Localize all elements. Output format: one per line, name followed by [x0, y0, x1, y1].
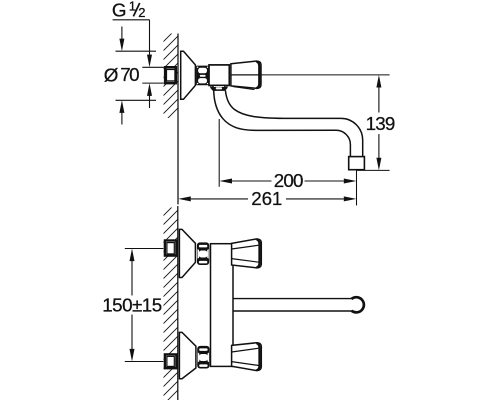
- escutcheon cone (top view): [181, 51, 196, 99]
- extension line escutcheon top: [116, 50, 157, 52]
- leader drop line of G1/2: [149, 20, 151, 56]
- extension line from handle axis: [261, 74, 389, 76]
- arrowhead Ø70 upper: [119, 39, 124, 52]
- spout tube (front view): [233, 299, 352, 311]
- svg-text:70: 70: [120, 64, 139, 85]
- extension line from aerator base: [357, 169, 390, 171]
- svg-text:261: 261: [251, 188, 282, 209]
- dimension line 139 upper segment: [378, 88, 380, 113]
- upper handle knob (front view): [232, 239, 262, 268]
- spout tube upper edge (top view): [225, 90, 362, 156]
- arrowhead 200 left: [219, 179, 232, 184]
- extension line spout axis: [218, 119, 220, 187]
- lower wall union nut (front view): [165, 354, 177, 368]
- lower handle knob (front view): [232, 343, 262, 371]
- wall hatching (top view): [148, 3, 193, 138]
- label Ø70: [104, 64, 140, 85]
- dimension line 139 lower segment: [378, 134, 380, 158]
- extension line upper inlet axis: [125, 248, 164, 250]
- dimension line 150 upper segment: [131, 261, 133, 296]
- dimension line 200 right segment: [305, 180, 344, 182]
- extension line lower inlet axis: [125, 361, 164, 363]
- svg-text:150±15: 150±15: [102, 295, 162, 316]
- arrowhead 150 bottom: [130, 349, 135, 362]
- arrowhead G1/2 lower: [147, 83, 152, 96]
- label G1/2: [112, 0, 146, 20]
- fraction slash of G1/2: [133, 3, 139, 16]
- arrowhead 200 right: [344, 179, 357, 184]
- upper escutcheon cone (front view): [179, 229, 195, 277]
- extension line escutcheon bottom: [116, 99, 157, 101]
- dimension line 150 lower segment: [131, 315, 133, 350]
- arrow tail G1/2 lower: [149, 96, 151, 109]
- central body column (front view): [211, 244, 234, 367]
- spout end cap (front view): [352, 297, 364, 312]
- svg-text:G: G: [112, 0, 127, 20]
- extension line nut top: [142, 66, 164, 68]
- upper wall union nut (front view): [165, 241, 177, 256]
- wall face line (top view): [177, 34, 179, 205]
- arrowhead 139 top: [376, 75, 381, 88]
- wall face line (front view): [177, 206, 179, 400]
- aerator outlet (top view): [349, 157, 365, 170]
- arrowhead 261 right: [344, 196, 357, 201]
- svg-text:2: 2: [138, 5, 145, 20]
- svg-text:Ø: Ø: [104, 64, 119, 85]
- valve body (top view): [209, 65, 229, 86]
- extension line nut bottom: [142, 82, 164, 84]
- spout tube lower edge (top view): [214, 90, 351, 156]
- lower escutcheon cone (front view): [179, 332, 196, 378]
- dimension line 261 left segment: [191, 198, 248, 200]
- arrowhead G1/2 upper: [147, 55, 152, 68]
- wall hatching (front view): [148, 177, 193, 400]
- arrowhead Ø70 lower: [119, 100, 124, 113]
- lower hex nut (front view): [197, 346, 209, 369]
- arrowhead 139 bottom: [376, 158, 381, 171]
- leader underline of G1/2: [113, 19, 150, 21]
- arrow tail Ø70 lower: [121, 113, 123, 125]
- dimension line 200 left segment: [232, 180, 272, 182]
- handle knob (top view): [231, 61, 261, 90]
- hex connection nut (top view): [196, 66, 209, 86]
- arrow tail Ø70 upper: [121, 27, 123, 40]
- arrowhead 261 left: [178, 196, 191, 201]
- G1/2 wall union nut (top view): [165, 67, 176, 83]
- extension line spout outlet axis: [356, 170, 358, 205]
- svg-text:139: 139: [366, 113, 396, 134]
- spout coupling nut (top view): [211, 85, 227, 90]
- upper hex nut (front view): [197, 242, 209, 265]
- arrowhead 150 top: [130, 249, 135, 262]
- dimension line 261 right segment: [286, 198, 344, 200]
